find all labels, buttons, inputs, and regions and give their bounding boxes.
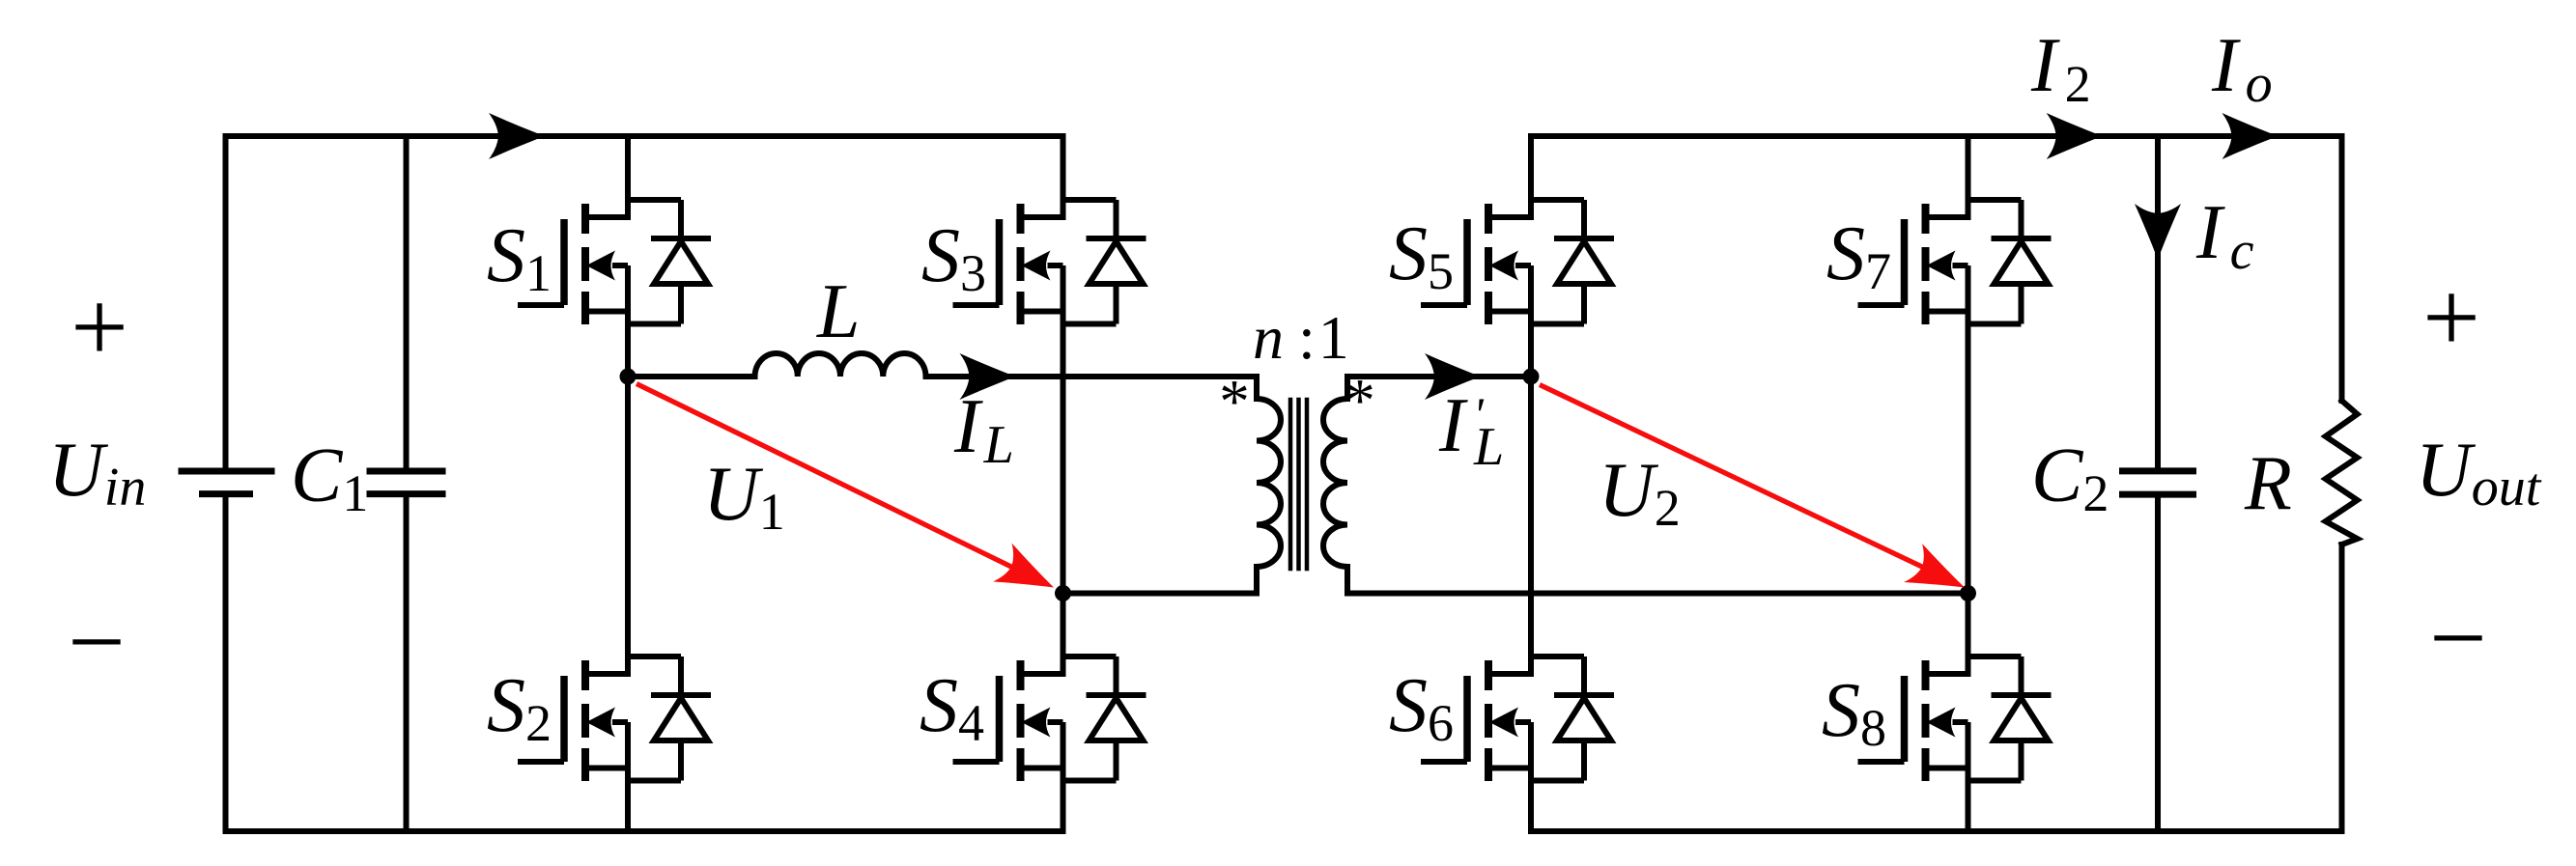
svg-text:L: L bbox=[1473, 417, 1504, 477]
arrow Io bbox=[2222, 113, 2279, 159]
arrow input current bbox=[489, 113, 545, 159]
svg-text:S1: S1 bbox=[487, 213, 552, 302]
svg-text:S5: S5 bbox=[1389, 211, 1454, 300]
wire transformer primary bottom bbox=[1063, 567, 1258, 594]
wire S7-S8 leg bbox=[1966, 136, 1971, 217]
svg-text:−: − bbox=[68, 585, 126, 698]
svg-text:+: + bbox=[71, 270, 128, 383]
capacitor C2 plates bbox=[2119, 471, 2196, 494]
wire R branch top bbox=[2339, 136, 2345, 401]
red arrow U1 bbox=[637, 384, 1063, 607]
wire bottom rail left bbox=[226, 828, 1063, 834]
wire top rail right bbox=[1531, 133, 2342, 139]
svg-text:+: + bbox=[2422, 261, 2480, 374]
wire top rail left bbox=[226, 133, 1063, 139]
svg-text:*: * bbox=[1345, 367, 1375, 434]
svg-text:C2: C2 bbox=[2031, 433, 2109, 522]
node C dot bbox=[1523, 369, 1540, 385]
arrow IL' bbox=[1425, 353, 1481, 400]
svg-text:S7: S7 bbox=[1826, 211, 1891, 300]
svg-text:S3: S3 bbox=[921, 213, 986, 302]
transformer primary winding bbox=[1257, 399, 1281, 567]
svg-text:−: − bbox=[2429, 581, 2487, 694]
wire R branch bottom bbox=[2339, 545, 2345, 831]
node B dot bbox=[1055, 585, 1071, 601]
wire C1 branch bbox=[404, 136, 410, 469]
arrow I2 bbox=[2047, 113, 2103, 159]
wire S3-S4 leg bbox=[1061, 136, 1066, 217]
capacitor C1 plates bbox=[367, 471, 446, 494]
svg-text:U2: U2 bbox=[1599, 448, 1681, 537]
transistor S8 bbox=[1858, 656, 2052, 781]
transistor S6 bbox=[1421, 656, 1614, 781]
svg-text:IL: IL bbox=[953, 384, 1014, 475]
transistor S3 bbox=[953, 200, 1146, 324]
wire bottom rail right bbox=[1531, 828, 2342, 834]
transistor S2 bbox=[518, 656, 711, 781]
svg-text:Ic: Ic bbox=[2195, 190, 2254, 281]
transformer core bbox=[1290, 400, 1307, 569]
node D dot bbox=[1960, 585, 1976, 601]
inductor L bbox=[755, 353, 926, 377]
arrow IL bbox=[960, 353, 1016, 400]
wire transformer secondary bottom bbox=[1347, 567, 1968, 594]
svg-text:*: * bbox=[1219, 368, 1250, 435]
svg-text:Io: Io bbox=[2211, 23, 2273, 114]
svg-text:S2: S2 bbox=[487, 663, 552, 752]
transformer secondary winding bbox=[1323, 399, 1347, 567]
transistor S4 bbox=[953, 656, 1146, 781]
svg-text:I: I bbox=[1438, 383, 1468, 468]
transistor S5 bbox=[1421, 200, 1614, 324]
svg-text:S4: S4 bbox=[920, 663, 984, 752]
wire S1-S2 leg bbox=[625, 136, 631, 217]
transistor S7 bbox=[1858, 200, 2052, 324]
wire transformer secondary top bbox=[1347, 377, 1531, 399]
svg-text:Uout: Uout bbox=[2416, 428, 2542, 517]
svg-text:Uin: Uin bbox=[48, 428, 146, 517]
svg-text:S6: S6 bbox=[1389, 663, 1454, 752]
svg-text:S8: S8 bbox=[1822, 668, 1886, 757]
transistor S1 bbox=[518, 200, 711, 324]
red arrow U2 bbox=[1540, 385, 1973, 607]
svg-text:C1: C1 bbox=[291, 433, 368, 522]
arrow Ic bbox=[2135, 204, 2181, 260]
svg-text:L: L bbox=[816, 269, 861, 354]
wire C2 branch bbox=[2155, 136, 2161, 468]
svg-text:n:1: n:1 bbox=[1253, 303, 1349, 372]
wire inductor to transformer primary top bbox=[926, 377, 1258, 399]
resistor R zigzag bbox=[2326, 401, 2358, 545]
source Uin battery plates bbox=[179, 471, 275, 494]
wire S5-S6 leg bbox=[1528, 136, 1534, 217]
svg-text:R: R bbox=[2244, 441, 2292, 526]
svg-text:U1: U1 bbox=[703, 452, 785, 541]
wire left rail bbox=[223, 136, 229, 469]
node A dot bbox=[620, 369, 637, 385]
svg-text:I2: I2 bbox=[2030, 23, 2091, 113]
wire mid node A to inductor bbox=[628, 374, 755, 379]
